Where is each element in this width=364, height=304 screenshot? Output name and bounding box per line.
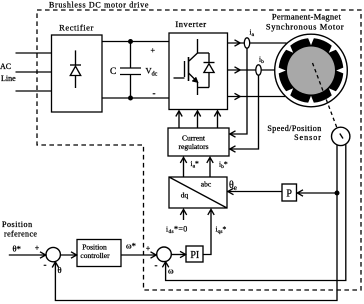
wire: omega* to summing junction 2	[121, 254, 156, 256]
svg-text:abc: abc	[201, 180, 212, 189]
inverter block	[169, 33, 228, 110]
svg-text:PI: PI	[190, 250, 199, 261]
svg-text:Sensor: Sensor	[294, 133, 322, 142]
wire: AC input line 1	[16, 52, 52, 54]
wire: theta_e from P to dq-abc	[228, 191, 283, 193]
svg-text:reference: reference	[4, 230, 37, 239]
wire: iqs* from PI up to dq block	[203, 210, 211, 255]
svg-text:Line: Line	[1, 74, 16, 83]
dq to abc transform block	[169, 177, 227, 208]
wire: phase b line	[228, 69, 275, 71]
svg-text:ia*: ia*	[191, 159, 200, 170]
speed/position sensor	[332, 127, 350, 145]
summing junction 2 (speed loop)	[157, 247, 172, 262]
IGBT Q inside inverter	[174, 39, 198, 95]
svg-text:Synchronous Motor: Synchronous Motor	[266, 22, 344, 32]
wire: junction 1 to position controller	[60, 254, 77, 256]
svg-text:θ: θ	[58, 265, 62, 275]
wire: ia* reference into current regulators	[183, 158, 185, 178]
svg-text:-: -	[155, 260, 158, 270]
svg-text:Speed/Position: Speed/Position	[267, 124, 321, 133]
wire: AC input line 2	[16, 71, 52, 73]
svg-text:+: +	[35, 244, 40, 253]
current regulators block	[168, 128, 229, 156]
svg-text:ω: ω	[168, 266, 174, 276]
svg-text:Position: Position	[2, 220, 33, 229]
wire: DC bus bottom	[102, 97, 169, 99]
capacitor C	[120, 42, 141, 99]
svg-text:controller: controller	[80, 251, 110, 260]
svg-text:ib*: ib*	[219, 160, 228, 171]
svg-text:C: C	[110, 67, 116, 77]
junction dot on sensor line	[335, 191, 340, 196]
wire: sensor to P block	[297, 192, 338, 194]
svg-text:P: P	[286, 189, 292, 200]
wire: gate signal 3 to inverter	[217, 111, 219, 128]
wire: gate signal 2 to inverter	[197, 111, 199, 128]
current sensor ia	[244, 38, 249, 48]
svg-text:ω*: ω*	[126, 241, 136, 251]
wire: phase a line	[228, 42, 287, 44]
svg-text:AC: AC	[0, 62, 11, 71]
wire: theta* input	[9, 254, 46, 256]
wire: AC input line 3	[16, 90, 52, 92]
junction dot top bus	[128, 39, 133, 44]
svg-text:Rectifier: Rectifier	[59, 23, 94, 33]
svg-text:Brushless DC motor drive: Brushless DC motor drive	[49, 0, 149, 9]
wire: ia feedback to current regulators	[230, 48, 247, 134]
wire: gate signal 1 to inverter	[178, 111, 180, 128]
current sensor ib	[256, 65, 261, 75]
wire: summing junction 2 to PI	[171, 254, 186, 256]
svg-text:θ*: θ*	[13, 244, 21, 254]
svg-text:+: +	[146, 244, 151, 253]
svg-text:Inverter: Inverter	[175, 19, 206, 29]
svg-text:regulators: regulators	[179, 142, 209, 151]
wire: omega feedback from sensor	[166, 144, 346, 281]
svg-text:-: -	[153, 88, 156, 98]
wire: ib feedback to current regulators	[230, 75, 259, 149]
wire: phase c line	[228, 96, 286, 98]
rectifier block	[52, 35, 103, 112]
summing junction 1 (position loop)	[46, 247, 60, 261]
wire: ib* reference into current regulators	[209, 158, 211, 178]
PI block	[186, 246, 203, 262]
wire: theta feedback from sensor down to bottom	[55, 145, 337, 301]
svg-text:dq: dq	[181, 191, 189, 200]
svg-text:-: -	[44, 260, 47, 270]
wire: ids*=0 input to dq block	[183, 210, 185, 221]
diode inside rectifier	[70, 50, 81, 88]
P block	[282, 184, 297, 201]
wire: dashed shaft link motor to sensor	[313, 63, 338, 128]
junction dot bottom bus	[128, 96, 133, 101]
position controller block	[77, 240, 121, 267]
wire: DC bus top	[102, 41, 169, 43]
svg-text:+: +	[151, 46, 156, 55]
svg-text:Permanent-Magnet: Permanent-Magnet	[272, 12, 342, 22]
permanent-magnet synchronous motor	[275, 34, 348, 107]
freewheel diode inside inverter	[198, 53, 215, 88]
